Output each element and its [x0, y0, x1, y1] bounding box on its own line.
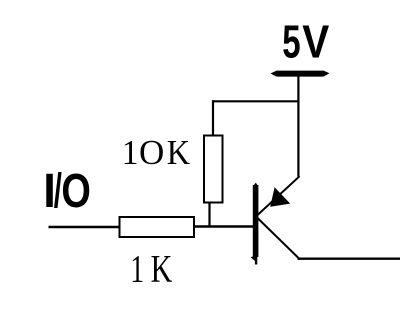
transistor Q1 base bar — [251, 183, 259, 265]
svg-text:1: 1 — [122, 135, 139, 173]
power rail bar 5V — [271, 71, 330, 77]
resistor R2 1K (horizontal box) — [120, 217, 195, 237]
label I/O (input net) — [43, 164, 91, 218]
label 1K (value of R2) — [130, 247, 172, 291]
svg-text:1: 1 — [130, 248, 144, 291]
resistor R1 10K (vertical box) — [204, 136, 223, 203]
wire: 10K bottom lead — [208, 202, 210, 228]
svg-text:/: / — [54, 165, 62, 218]
wire: 1K right lead to base — [194, 225, 254, 227]
svg-text:O: O — [61, 165, 91, 218]
transistor Q1 emitter diagonal with arrow (PNP) — [257, 176, 300, 215]
wire: horizontal from 10K top to vertical rail — [212, 100, 300, 102]
wire: 10K top lead — [212, 100, 214, 136]
svg-text:O: O — [139, 133, 164, 172]
wire: I/O input to 1K left lead — [49, 226, 122, 228]
svg-text:5: 5 — [282, 17, 300, 67]
transistor Q1 collector diagonal — [257, 218, 299, 259]
wire: 5V bar down to emitter node (vertical) — [297, 74, 299, 177]
svg-text:V: V — [302, 17, 329, 68]
label 10K (value of R1) — [122, 133, 190, 172]
svg-text:K: K — [167, 134, 190, 173]
svg-text:K: K — [151, 247, 173, 291]
wire: collector output to right edge — [298, 258, 400, 260]
label 5V (power net) — [282, 17, 329, 68]
